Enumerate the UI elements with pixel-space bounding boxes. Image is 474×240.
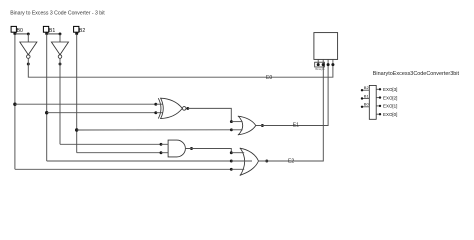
wire stub into inverter U2 xyxy=(59,34,61,42)
svg-text:B2: B2 xyxy=(79,28,85,34)
subcircuit symbol body xyxy=(369,85,376,119)
input pin B2 xyxy=(74,26,79,32)
OR U5 input port dots xyxy=(230,120,233,123)
svg-text:E0: E0 xyxy=(266,75,272,81)
XNOR U3 output port dot xyxy=(186,107,189,110)
wire: B0 to XNOR U3 top input xyxy=(15,103,156,105)
OR U6 input port dots xyxy=(230,151,233,154)
inverter U1 output port dot xyxy=(27,63,30,66)
OR U5 output port dot xyxy=(261,124,264,127)
wire: B1 long vertical xyxy=(46,34,48,161)
wire: OR U5 output E1 to subcircuit pin xyxy=(256,65,328,126)
OR gate U5 xyxy=(238,116,256,135)
AND U4 input port dots xyxy=(160,143,163,146)
input pin B0 xyxy=(11,26,16,32)
subcircuit symbol input port dots xyxy=(361,89,363,91)
junction node on B1 vertical xyxy=(45,111,48,114)
OR gate U6 (3-input) xyxy=(240,148,259,176)
svg-text:Binary to Excess 3 Code Conver: Binary to Excess 3 Code Converter - 3 bi… xyxy=(10,10,105,16)
subcircuit symbol output stubs xyxy=(376,89,380,114)
OR U5 input stubs xyxy=(231,121,242,123)
wire: B2 to OR U5 bottom input xyxy=(77,129,232,131)
svg-text:B0: B0 xyxy=(364,102,370,107)
subcircuit instance box (top right) xyxy=(314,33,338,60)
XNOR U3 input stubs xyxy=(156,103,163,105)
wire: B0 long vertical xyxy=(14,34,16,169)
wire: B2 vertical xyxy=(76,34,78,153)
pin B2 port dot xyxy=(75,32,78,35)
junction node on B2 vertical xyxy=(75,128,78,131)
svg-text:E1: E1 xyxy=(293,123,299,129)
pin B0 port dot xyxy=(13,32,16,35)
wire stub into inverter U1 xyxy=(27,34,29,42)
svg-text:B1: B1 xyxy=(49,28,55,34)
subcircuit instance pin stubs xyxy=(318,59,333,64)
inverter U2 output port dot xyxy=(59,63,62,66)
svg-text:EXO[0]: EXO[0] xyxy=(383,112,397,117)
wire: B1 to OR U6 middle input xyxy=(47,160,232,162)
pin B1 port dot xyxy=(45,32,48,35)
AND U4 input stubs xyxy=(161,143,168,145)
wire: B0 to OR U6 bottom input xyxy=(15,168,231,170)
wire: U2 output to AND U4 top input xyxy=(60,143,161,145)
subcircuit symbol input stubs xyxy=(362,90,369,107)
svg-text:B1: B1 xyxy=(364,93,370,98)
subcircuit instance selection rect xyxy=(315,62,325,67)
inverter U2 (NOT gate, facing down) xyxy=(51,42,68,58)
svg-text:Binaryto: Binaryto xyxy=(315,67,325,71)
wire B1 pin to inverter U2 input xyxy=(47,33,60,35)
wire: B2 to AND U4 bottom input xyxy=(77,152,161,154)
AND gate U4 xyxy=(168,140,185,157)
inverter U1 (NOT gate, facing down) xyxy=(20,42,37,58)
junction node on B0 vertical xyxy=(13,103,16,106)
OR U6 input stubs xyxy=(231,152,244,154)
svg-text:EXO[2]: EXO[2] xyxy=(383,95,397,100)
wire: inverter U1 output down to E0 xyxy=(28,58,333,77)
subcircuit symbol output port dots xyxy=(379,88,381,90)
node: inverter U2 input port dot xyxy=(59,32,62,35)
wire B0 pin to inverter U1 input xyxy=(15,33,28,35)
input pin B1 xyxy=(43,26,48,32)
node: inverter U1 input port dot xyxy=(27,32,30,35)
svg-text:EXO[1]: EXO[1] xyxy=(383,104,397,109)
AND U4 output port dot xyxy=(190,147,193,150)
svg-text:B0: B0 xyxy=(17,28,23,34)
wire: inverter U2 output down xyxy=(59,58,61,144)
wire: XNOR U3 output to OR U5 top input xyxy=(188,108,232,121)
wire: OR U6 output E2 to subcircuit pin xyxy=(259,65,324,161)
OR U6 output port dot xyxy=(265,160,268,163)
wire: AND U4 output to OR U6 top input xyxy=(186,149,232,153)
svg-text:E2: E2 xyxy=(288,158,294,164)
svg-text:EXO[3]: EXO[3] xyxy=(383,87,397,92)
XNOR gate U3 xyxy=(158,98,186,118)
wire: B1 to XNOR U3 bottom input xyxy=(47,112,156,114)
svg-text:BinarytoExcess3CodeConverter3b: BinarytoExcess3CodeConverter3bit xyxy=(373,71,460,77)
svg-text:B2: B2 xyxy=(364,85,370,90)
subcircuit instance port dots E3 E2 E1 E0 xyxy=(317,63,320,66)
XNOR U3 input port dots xyxy=(154,103,157,106)
